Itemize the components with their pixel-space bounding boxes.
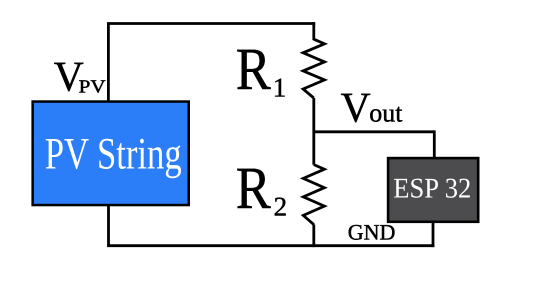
PV String block (33, 102, 189, 206)
svg-text:2: 2 (274, 192, 288, 222)
wire: top rail (107, 22, 315, 25)
node Vpv label (54, 53, 107, 100)
label R1 (236, 36, 286, 102)
label R2 (236, 155, 287, 222)
wire: R1 bottom to R2 top through Vout node (312, 98, 315, 165)
svg-text:GND: GND (348, 220, 396, 245)
svg-text:ESP 32: ESP 32 (393, 174, 471, 205)
svg-text:PV: PV (79, 78, 107, 98)
svg-text:R: R (236, 155, 271, 221)
resistor R2 (303, 165, 324, 225)
wire: PV String bottom to ground rail (107, 205, 110, 246)
wire: Vout rail down to ESP32 top (433, 130, 436, 159)
wire: Vout rail (314, 130, 435, 133)
wire: PV String top to top rail (107, 24, 110, 103)
wire: R1 top stub (312, 22, 315, 40)
svg-text:R: R (236, 36, 271, 102)
resistor R1 (303, 39, 324, 98)
ESP32 block (388, 158, 478, 222)
wire: ground rail (107, 244, 434, 247)
svg-text:V: V (341, 85, 371, 132)
wire: ESP32 bottom to ground rail (432, 221, 435, 248)
svg-text:1: 1 (273, 73, 287, 103)
svg-text:PV String: PV String (45, 129, 182, 179)
wire: R2 bottom to ground rail (312, 224, 315, 247)
svg-text:out: out (369, 99, 403, 128)
label Vout (341, 85, 404, 132)
